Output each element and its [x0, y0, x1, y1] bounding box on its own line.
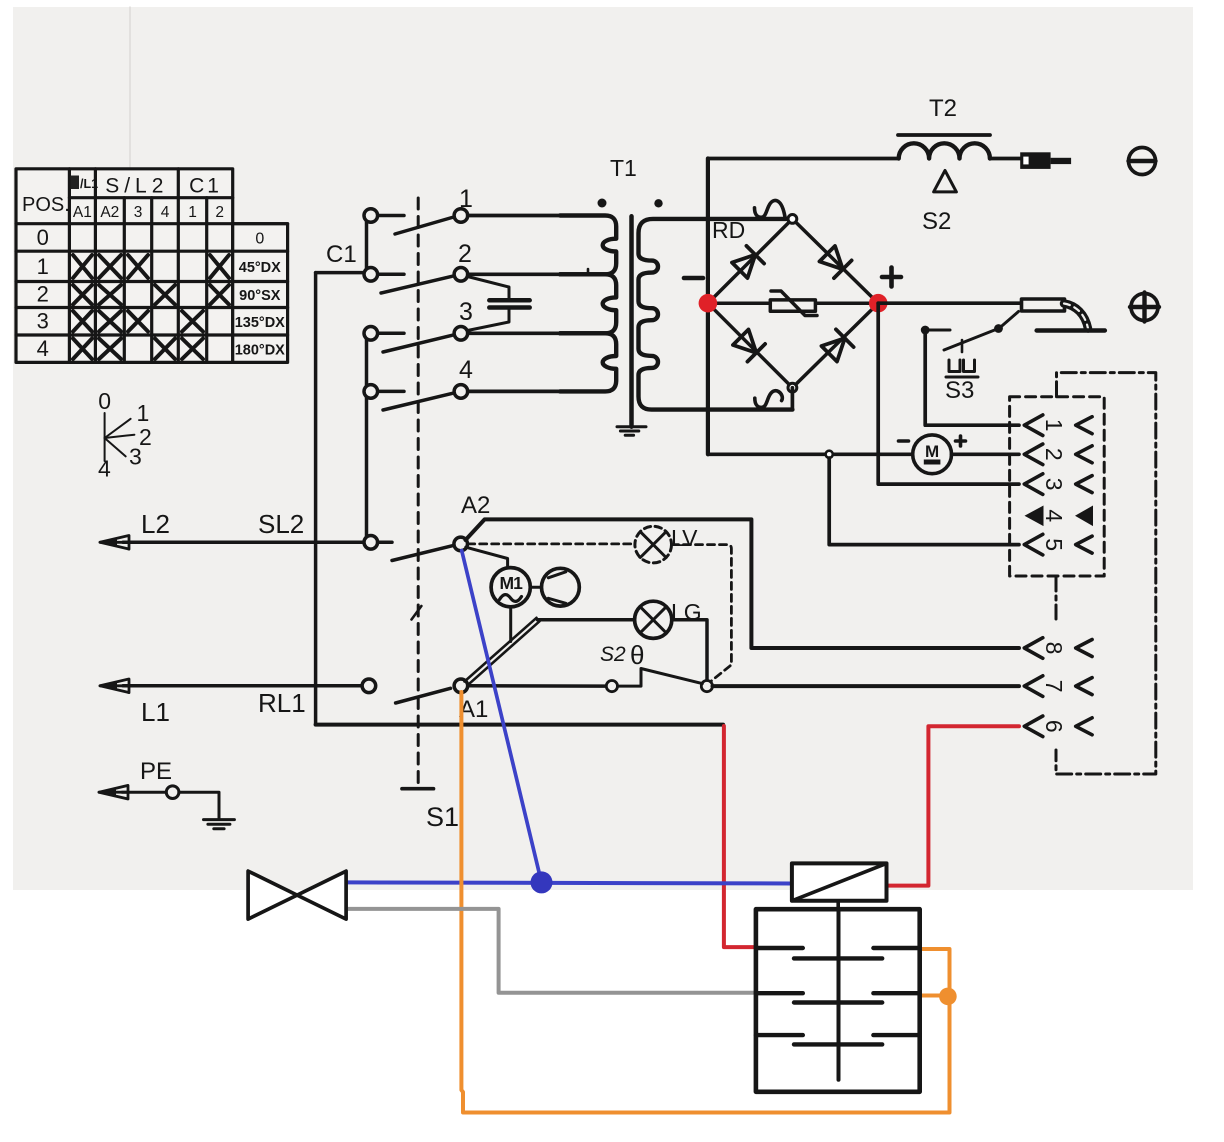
- wire plus node to torch: [878, 301, 1022, 305]
- A1 riser to LG (double stroke): [465, 618, 540, 686]
- wire plus node to pin 3: [878, 303, 1019, 484]
- S1 shaft end bar: [402, 787, 434, 791]
- dashed LV return to S2 contact: [672, 545, 732, 682]
- svg-text:S3: S3: [945, 377, 974, 404]
- bridge AC node bottom: [788, 383, 797, 392]
- workpiece bar: [1037, 328, 1105, 332]
- dashed LV branch from A2: [468, 543, 635, 546]
- svg-text:2: 2: [37, 282, 49, 307]
- svg-text:0: 0: [255, 231, 264, 248]
- svg-text:2: 2: [215, 204, 224, 221]
- svg-text:M1: M1: [500, 573, 524, 593]
- svg-text:S2: S2: [600, 643, 626, 666]
- svg-text:A2: A2: [100, 204, 119, 221]
- feeder block center line: [837, 909, 841, 1079]
- wire PE: [122, 791, 166, 794]
- wire L1 line: [123, 684, 362, 688]
- torch neck: [1064, 304, 1088, 329]
- wire L2 line: [123, 541, 364, 545]
- PE arrow: [99, 785, 128, 799]
- motor M (wire feed): [913, 435, 952, 474]
- svg-text:45°DX: 45°DX: [239, 260, 281, 276]
- blue junction dot: [531, 871, 553, 893]
- regulator stem: [836, 901, 840, 909]
- pin 2: [1024, 444, 1092, 465]
- wire C1 bottom rail: [316, 723, 723, 727]
- svg-text:POS.: POS.: [22, 194, 70, 216]
- capacitor C1: [468, 277, 530, 331]
- svg-text:4: 4: [1041, 509, 1067, 522]
- M1 lower lead: [509, 607, 512, 642]
- svg-text:C1: C1: [326, 241, 357, 268]
- torch handle: [1022, 299, 1065, 311]
- red wire C1 rail to feeder block: [724, 726, 754, 947]
- svg-text:C1: C1: [189, 175, 222, 198]
- diode D3 bottom-left arm: [732, 328, 765, 361]
- svg-text:4: 4: [161, 204, 170, 221]
- feeder block body: [756, 909, 920, 1092]
- SL2 left terminal: [364, 536, 378, 550]
- T2 core bar: [898, 133, 990, 137]
- switch C1 contact 3: [364, 327, 468, 353]
- wire tap 1 to primary: [468, 214, 570, 218]
- svg-text:L2: L2: [141, 509, 170, 539]
- varistor across DC output: [708, 301, 878, 305]
- svg-text:4: 4: [98, 456, 111, 482]
- wire C1 feed to contact 2: [316, 271, 364, 275]
- svg-text:8: 8: [1041, 642, 1067, 655]
- S1 shaft tick: [412, 606, 422, 620]
- L1 arrow: [100, 679, 129, 693]
- gray wire valve to feeder block: [346, 909, 754, 993]
- T1 secondary winding: [639, 219, 793, 410]
- plus sign: [882, 268, 901, 287]
- S3 pushbutton symbol: [946, 360, 978, 377]
- feeder block contact row 2: [756, 993, 920, 1002]
- S2 thermostat left terminal: [606, 681, 617, 692]
- svg-text:M: M: [925, 442, 939, 461]
- motor minus sign: [899, 439, 909, 443]
- L2 arrow: [100, 536, 129, 550]
- work clamp (negative electrode plug): [1020, 152, 1071, 169]
- svg-text:/L1: /L1: [80, 177, 98, 191]
- fan motor M1: [491, 568, 530, 607]
- wire motor to pin 2: [952, 452, 1020, 456]
- wire negative rail vertical (T2 feed / minus node): [706, 159, 710, 455]
- flow regulator (box with diagonal): [792, 863, 887, 900]
- svg-text:5: 5: [1041, 538, 1067, 551]
- wire torch to S3 contact: [1000, 312, 1019, 329]
- feeder block contact row 3: [756, 1035, 920, 1044]
- blue wire A2 to gas valve junction: [462, 551, 542, 883]
- svg-text:0: 0: [98, 388, 111, 414]
- svg-text:T2: T2: [929, 95, 957, 122]
- paper background: [13, 7, 1193, 890]
- pin 8: [1024, 638, 1092, 659]
- minus terminal symbol: [1129, 148, 1156, 175]
- svg-text:180°DX: 180°DX: [235, 343, 285, 359]
- wire tap 2 to primary: [468, 272, 570, 276]
- svg-text:S2: S2: [922, 208, 951, 235]
- plus terminal symbol: [1130, 293, 1159, 322]
- PE ground symbol: [204, 820, 235, 829]
- enclosure boundary (dash-dot): [1056, 373, 1156, 774]
- table X marks: [73, 255, 229, 359]
- table header labels: [22, 175, 285, 362]
- wire A2 to fan motor M1: [466, 547, 508, 568]
- wire joining contacts 3-4 left terminals: [365, 338, 369, 387]
- svg-text:4: 4: [37, 336, 49, 361]
- wire A2 to pin 8: [466, 519, 1020, 648]
- wire PE to ground: [179, 792, 219, 818]
- switch C1 contact 1: [364, 209, 468, 234]
- feeder block contact row 1: [756, 948, 920, 958]
- switch C1 contact 4: [364, 385, 468, 410]
- minus sign: [684, 276, 703, 281]
- svg-text:S1: S1: [426, 802, 459, 832]
- svg-text:2: 2: [1041, 448, 1067, 461]
- junction node on minus rail: [826, 451, 833, 458]
- wire A1 to S2 thermostat: [468, 684, 607, 688]
- gas valve: [248, 871, 346, 919]
- svg-text:A1: A1: [459, 696, 488, 723]
- fan blade: [542, 568, 580, 606]
- svg-text:RD: RD: [712, 217, 745, 243]
- blue wire valve line: [346, 882, 792, 883]
- wire tap 3 to primary: [468, 331, 570, 335]
- diode D1 top-left arm: [731, 246, 764, 279]
- red wire pin 6 to regulator: [888, 726, 1019, 885]
- wire top feed to T2: [708, 157, 899, 161]
- AC squiggle bottom: [755, 391, 783, 408]
- wire LG to S2 contact: [672, 620, 707, 681]
- lamp LV (dashed): [635, 526, 672, 563]
- wire T2 to work clamp: [990, 157, 1020, 161]
- T1 primary polarity dot: [598, 199, 607, 208]
- S3 actuator tick: [961, 340, 964, 352]
- S3 contact stub: [925, 329, 950, 332]
- svg-text:3: 3: [459, 298, 473, 326]
- plus node: [869, 294, 888, 313]
- terminal A2: [454, 537, 468, 551]
- svg-text:1: 1: [137, 400, 150, 426]
- svg-text:90°SX: 90°SX: [239, 288, 281, 304]
- SL2 stub: [378, 541, 392, 545]
- diode D4 bottom-right arm: [820, 329, 853, 362]
- svg-text:SL2: SL2: [258, 509, 304, 539]
- svg-text:4: 4: [459, 356, 473, 384]
- S3 blade: [944, 328, 1001, 350]
- svg-text:1: 1: [37, 254, 49, 279]
- switch C1 contact 2: [364, 268, 468, 294]
- svg-text:1: 1: [459, 185, 473, 213]
- orange stub to block row 2: [922, 994, 948, 998]
- connector dashed box (pins 1-5): [1010, 397, 1105, 576]
- lamp LG: [635, 601, 672, 638]
- RL1 blade: [396, 688, 451, 703]
- pin 4 (keyed, filled): [1025, 506, 1094, 527]
- pin 7: [1024, 676, 1092, 697]
- wire S2 to pin 7: [713, 684, 1020, 688]
- svg-text:θ: θ: [630, 640, 644, 670]
- svg-text:0: 0: [37, 225, 49, 250]
- switch S3 left contact: [921, 326, 930, 335]
- tap 2 connection tick: [587, 269, 590, 274]
- PE terminal: [166, 786, 179, 799]
- fan shaft: [530, 586, 542, 589]
- svg-text:A2: A2: [461, 492, 490, 519]
- T1 secondary polarity dot: [654, 199, 662, 207]
- T2 winding: [899, 143, 990, 158]
- S2 thermal sensor triangle: [934, 171, 957, 192]
- svg-text:PE: PE: [140, 758, 172, 785]
- S2 thermostat blade: [618, 669, 703, 687]
- svg-text:T1: T1: [610, 155, 637, 181]
- motor plus sign: [956, 436, 966, 446]
- svg-text:1: 1: [188, 204, 197, 221]
- svg-text:1: 1: [1041, 419, 1067, 432]
- wire minus rail to motor: [708, 452, 913, 456]
- svg-text:LV: LV: [671, 525, 698, 551]
- wire riser to LG lamp: [538, 618, 635, 622]
- switch position table: [16, 169, 288, 363]
- svg-text:S/L2: S/L2: [105, 175, 168, 198]
- pin 5: [1024, 534, 1092, 555]
- svg-text:3: 3: [1041, 478, 1067, 491]
- pin 6: [1024, 716, 1092, 737]
- AC squiggle top: [755, 200, 786, 217]
- orange wire A1 to feeder block: [461, 692, 949, 1113]
- fold line artifact: [129, 7, 131, 170]
- wire C1 feed vertical: [314, 273, 318, 725]
- switch S3 right contact: [994, 324, 1003, 333]
- minus node: [699, 294, 718, 313]
- wire tap 4 to primary: [468, 390, 570, 394]
- selector position diagram: [105, 413, 135, 461]
- svg-text:2: 2: [458, 240, 472, 268]
- svg-text:6: 6: [1041, 720, 1067, 733]
- pin 3: [1024, 474, 1092, 495]
- pin 1: [1024, 415, 1092, 436]
- svg-text:L1: L1: [141, 697, 170, 727]
- wire junction to pin 5: [829, 458, 1019, 545]
- SL2 blade: [392, 546, 452, 561]
- RL1 left terminal: [362, 679, 376, 693]
- svg-text:3: 3: [37, 309, 49, 334]
- svg-text:3: 3: [134, 204, 143, 221]
- svg-text:A1: A1: [73, 204, 92, 221]
- S2 thermostat right terminal: [701, 681, 712, 692]
- bridge AC node top: [788, 215, 797, 224]
- wire contact 4 to SL2 terminal: [365, 396, 369, 537]
- T1 core ground: [617, 427, 646, 436]
- wire bottom AC to secondary: [791, 388, 795, 410]
- diode D2 top-right arm: [818, 245, 851, 278]
- T1 primary winding: [560, 216, 616, 392]
- bridge arms: [708, 219, 878, 388]
- svg-text:135°DX: 135°DX: [235, 315, 285, 331]
- mechanical coupling shaft S1 (dashed): [417, 198, 420, 787]
- svg-text:3: 3: [129, 444, 142, 470]
- svg-text:7: 7: [1041, 680, 1067, 693]
- svg-text:RL1: RL1: [258, 688, 306, 718]
- terminal A1: [454, 679, 468, 693]
- orange junction dot: [939, 988, 957, 1006]
- wire S3 to pin 1: [925, 330, 1019, 425]
- T1 core: [629, 216, 634, 426]
- wire joining contacts 1-2 left terminals: [365, 220, 369, 269]
